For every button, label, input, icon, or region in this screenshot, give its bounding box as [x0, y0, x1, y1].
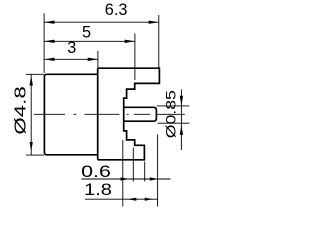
svg-text:3: 3	[67, 39, 76, 57]
dimension 3	[44, 39, 98, 68]
internal edge between body and shell	[97, 68, 99, 160]
centerline (axis)	[34, 113, 185, 115]
dimension 0.6	[81, 163, 170, 181]
svg-text:6.3: 6.3	[105, 1, 128, 19]
svg-text:Ø4.8: Ø4.8	[13, 86, 30, 134]
svg-text:5: 5	[82, 24, 91, 42]
dimension dia 0.85	[157, 90, 190, 151]
svg-text:1.8: 1.8	[84, 179, 112, 198]
center pin	[124, 107, 157, 121]
svg-text:Ø0.85: Ø0.85	[164, 90, 179, 138]
extension lines below part	[123, 135, 158, 207]
dimension 1.8	[84, 179, 158, 200]
body block	[44, 74, 97, 155]
part outline	[98, 68, 160, 160]
dimension 5	[44, 24, 134, 80]
dimension dia 4.8	[13, 74, 44, 155]
dimension 6.3	[44, 1, 159, 73]
